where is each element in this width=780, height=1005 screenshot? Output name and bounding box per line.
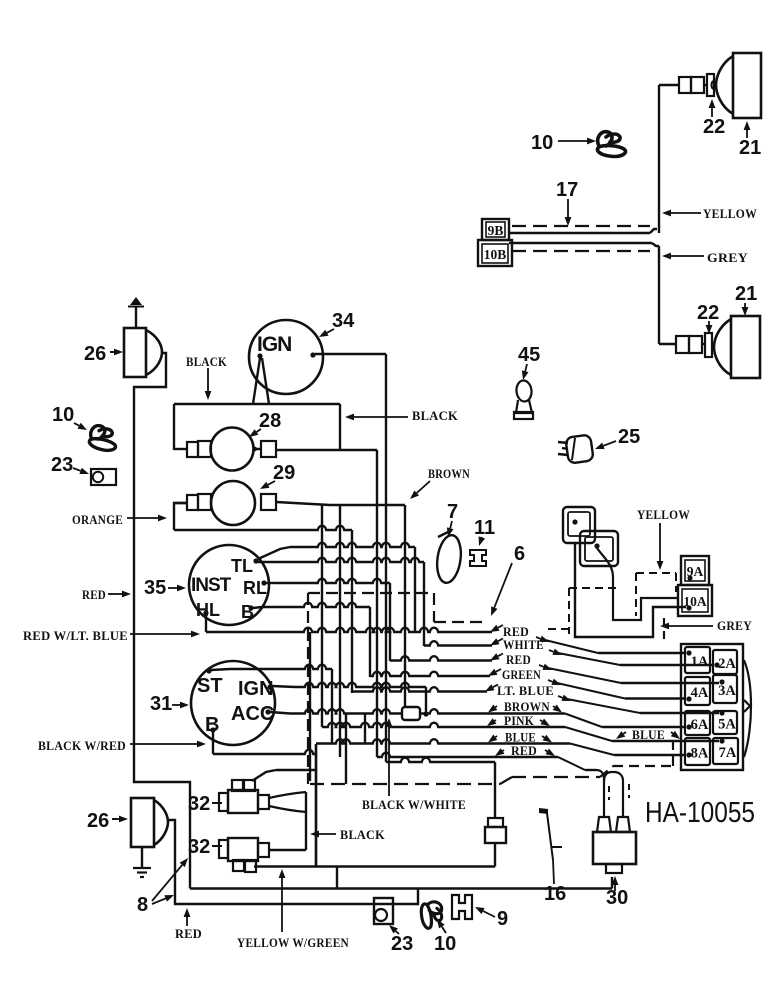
svg-text:BLUE: BLUE xyxy=(505,731,536,745)
svg-text:LT. BLUE: LT. BLUE xyxy=(497,684,554,698)
svg-text:2A: 2A xyxy=(718,656,736,672)
svg-text:22: 22 xyxy=(703,116,725,138)
svg-text:GREEN: GREEN xyxy=(502,668,541,682)
svg-text:HL: HL xyxy=(196,600,220,620)
svg-text:34: 34 xyxy=(332,310,355,332)
svg-text:RED: RED xyxy=(82,588,106,602)
svg-text:21: 21 xyxy=(735,283,757,305)
svg-text:22: 22 xyxy=(697,302,719,324)
svg-text:23: 23 xyxy=(391,933,413,955)
svg-text:10: 10 xyxy=(434,933,456,955)
svg-text:35: 35 xyxy=(144,577,166,599)
svg-text:RED W/LT. BLUE: RED W/LT. BLUE xyxy=(23,629,128,643)
svg-text:8A: 8A xyxy=(691,746,709,762)
svg-text:7A: 7A xyxy=(719,745,737,761)
svg-text:3A: 3A xyxy=(718,683,736,699)
svg-text:BLACK: BLACK xyxy=(340,828,385,842)
svg-text:6A: 6A xyxy=(691,717,709,733)
svg-text:10A: 10A xyxy=(683,594,707,609)
svg-text:5A: 5A xyxy=(718,717,736,733)
svg-text:BLUE: BLUE xyxy=(632,728,665,742)
svg-text:28: 28 xyxy=(259,410,281,432)
svg-text:BROWN: BROWN xyxy=(428,467,470,481)
svg-text:HA-10055: HA-10055 xyxy=(645,797,755,829)
svg-text:25: 25 xyxy=(618,426,640,448)
svg-text:10B: 10B xyxy=(484,247,507,262)
svg-text:BROWN: BROWN xyxy=(504,700,550,714)
svg-text:26: 26 xyxy=(87,810,109,832)
svg-text:ORANGE: ORANGE xyxy=(72,513,123,527)
svg-text:YELLOW W/GREEN: YELLOW W/GREEN xyxy=(237,936,349,950)
svg-text:YELLOW: YELLOW xyxy=(637,508,690,522)
svg-text:26: 26 xyxy=(84,343,106,365)
svg-text:RED: RED xyxy=(506,653,531,667)
svg-text:B: B xyxy=(241,602,254,622)
svg-text:9B: 9B xyxy=(488,223,504,238)
svg-text:29: 29 xyxy=(273,462,295,484)
svg-text:8: 8 xyxy=(137,894,148,916)
svg-text:21: 21 xyxy=(739,137,761,159)
svg-text:BLACK: BLACK xyxy=(412,409,458,423)
svg-text:23: 23 xyxy=(51,454,73,476)
svg-text:7: 7 xyxy=(447,501,458,523)
svg-text:10: 10 xyxy=(52,404,74,426)
svg-text:YELLOW: YELLOW xyxy=(703,207,757,221)
svg-text:IGN: IGN xyxy=(238,678,274,700)
svg-text:GREY: GREY xyxy=(717,619,752,633)
svg-text:IGN: IGN xyxy=(257,333,291,356)
svg-text:1A: 1A xyxy=(691,654,709,670)
svg-text:31: 31 xyxy=(150,693,172,715)
svg-text:BLACK W/WHITE: BLACK W/WHITE xyxy=(362,798,466,812)
svg-text:BLACK: BLACK xyxy=(186,355,227,369)
svg-text:INST: INST xyxy=(191,575,232,596)
svg-text:32: 32 xyxy=(188,836,210,858)
svg-text:11: 11 xyxy=(474,517,495,539)
svg-text:6: 6 xyxy=(514,543,525,565)
svg-text:PINK: PINK xyxy=(504,714,534,728)
svg-text:GREY: GREY xyxy=(707,251,748,265)
svg-text:BLACK W/RED: BLACK W/RED xyxy=(38,739,126,753)
svg-text:RED: RED xyxy=(503,625,529,639)
svg-text:32: 32 xyxy=(188,793,210,815)
svg-text:9: 9 xyxy=(497,908,508,930)
svg-text:RED: RED xyxy=(511,744,537,758)
svg-text:30: 30 xyxy=(606,887,628,909)
svg-text:10: 10 xyxy=(531,132,553,154)
svg-text:ST: ST xyxy=(197,675,223,697)
svg-text:4A: 4A xyxy=(691,685,709,701)
svg-text:16: 16 xyxy=(544,883,566,905)
svg-text:RED: RED xyxy=(175,927,202,941)
svg-text:45: 45 xyxy=(518,344,540,366)
svg-text:TL: TL xyxy=(231,556,253,576)
svg-text:WHITE: WHITE xyxy=(503,638,544,652)
svg-text:17: 17 xyxy=(556,179,578,201)
